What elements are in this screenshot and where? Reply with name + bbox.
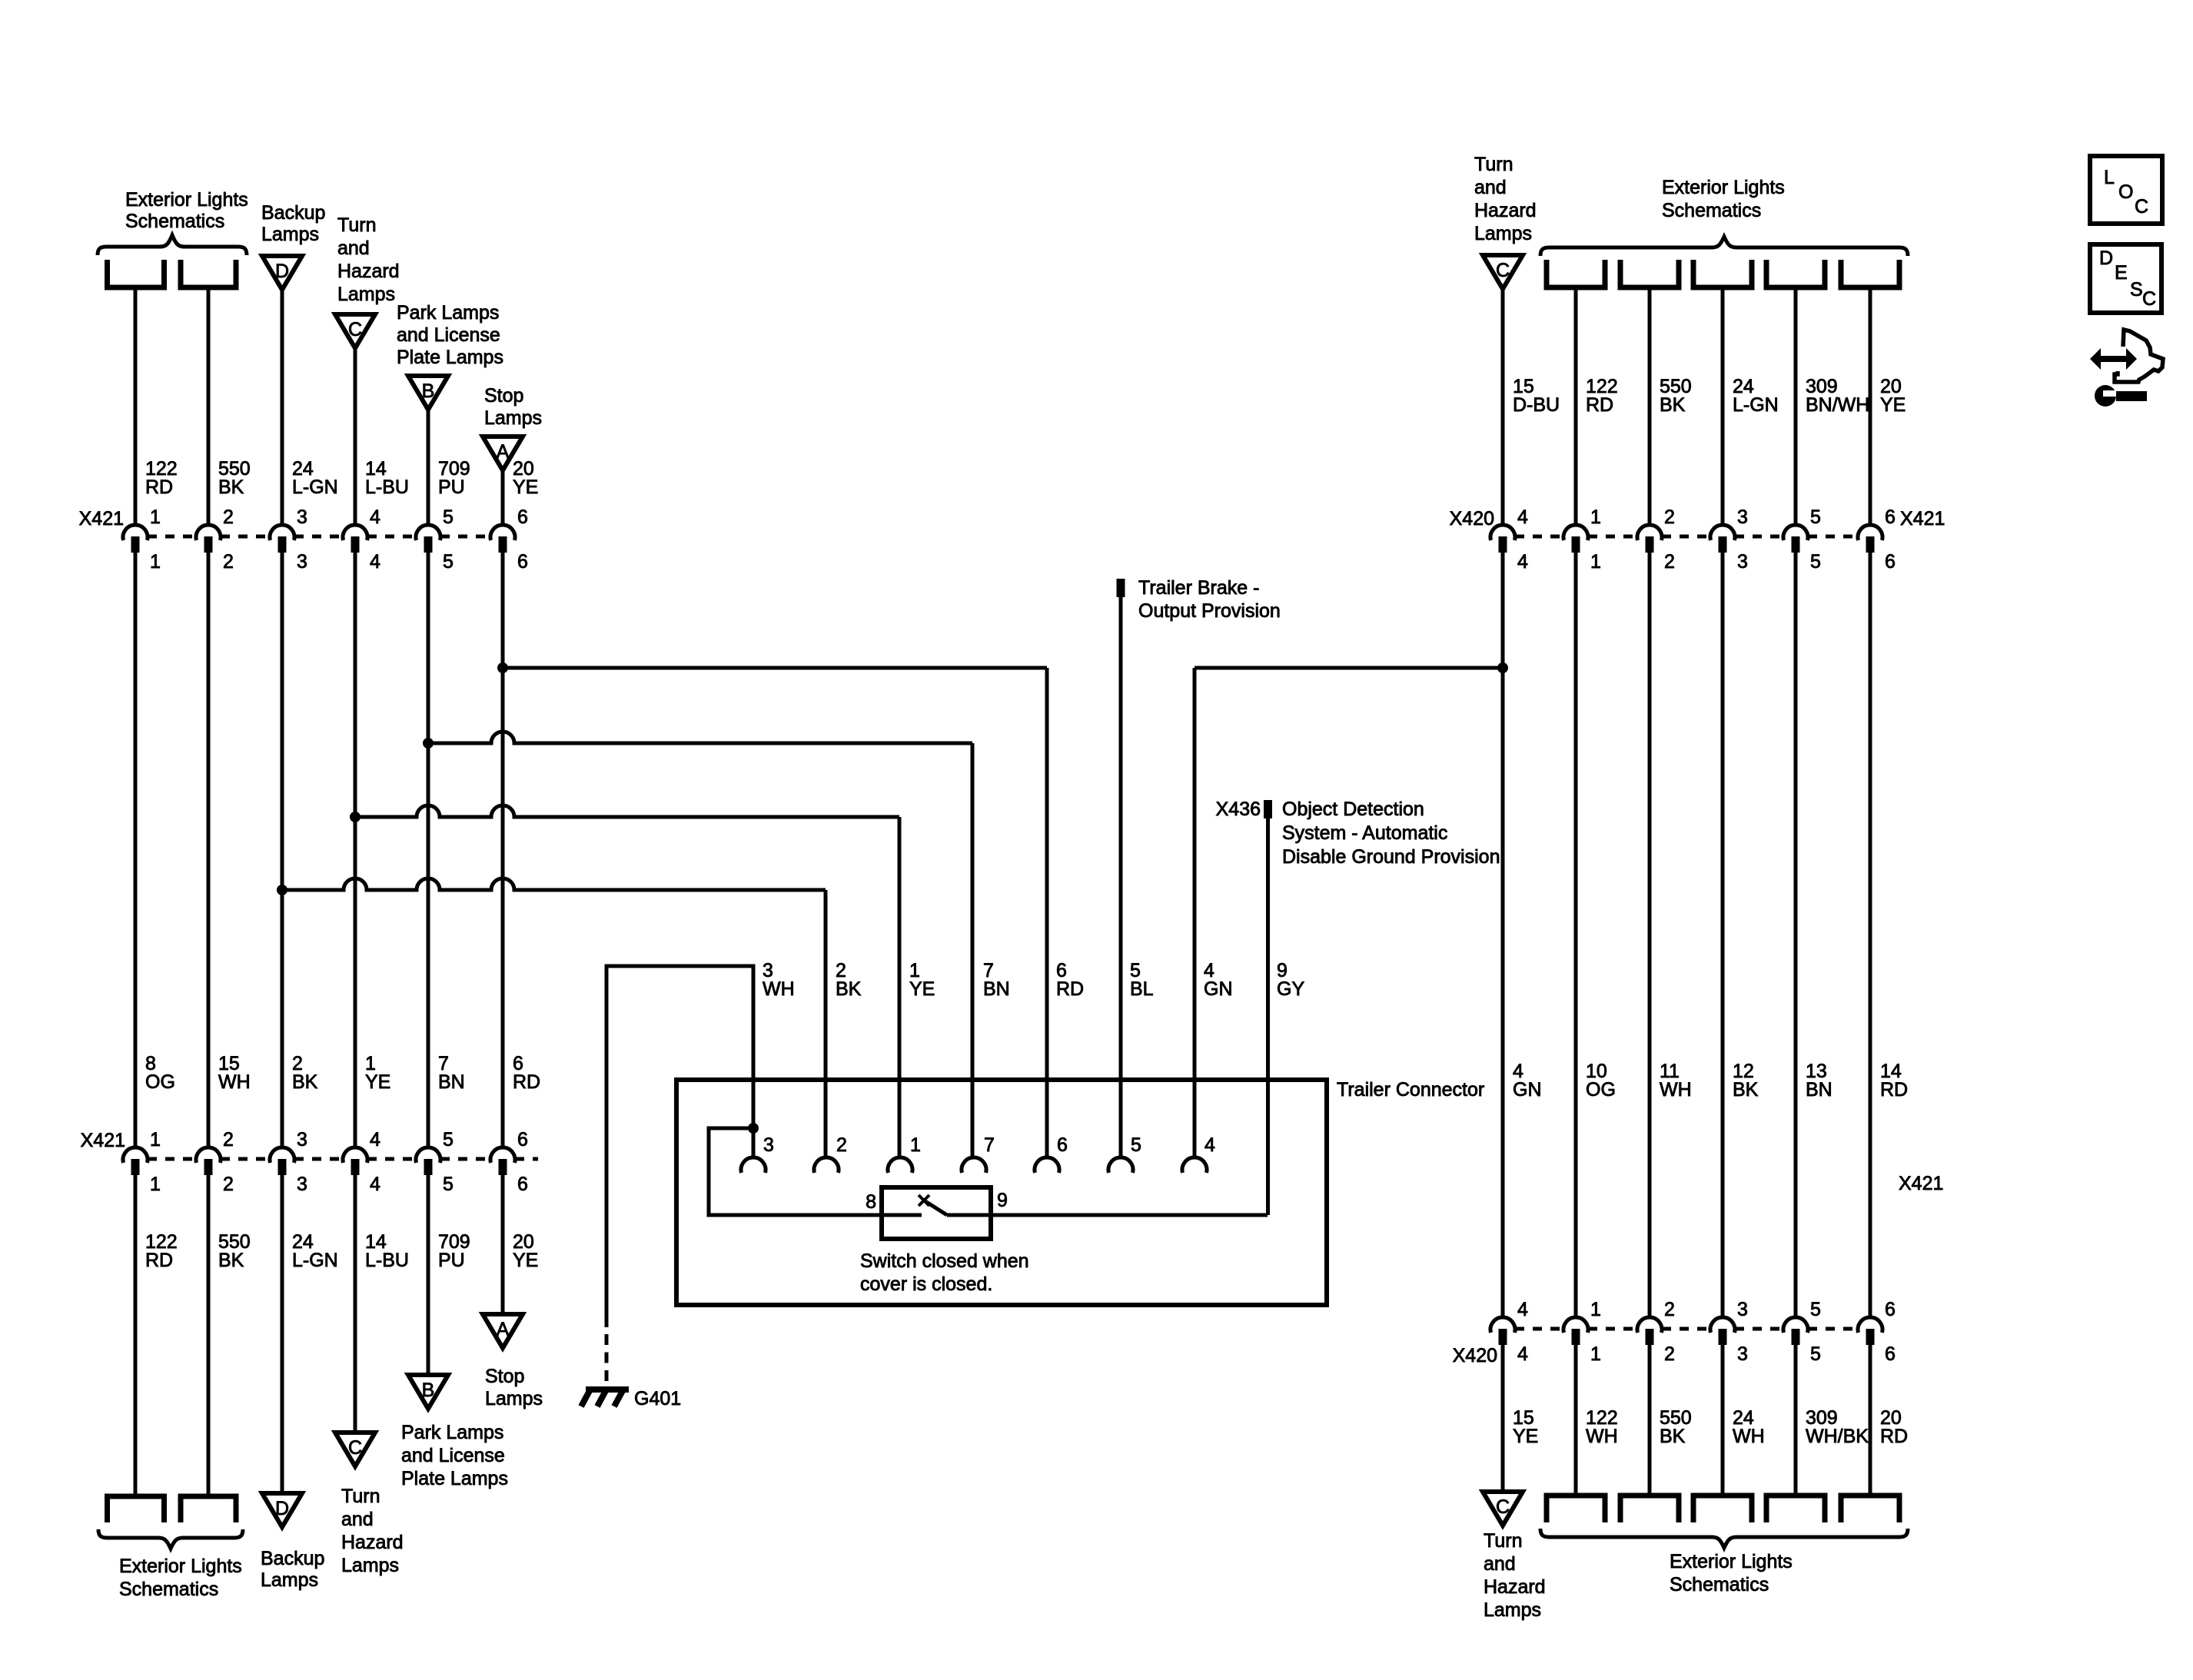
brace: exterior lights schematics bottom left [98,1529,243,1549]
svg-text:4: 4 [1517,1299,1528,1320]
svg-text:BK: BK [836,978,862,1000]
trailer connector terminal 4 [1182,1157,1207,1173]
svg-text:2: 2 [1664,1299,1675,1320]
svg-text:Turn: Turn [341,1486,380,1507]
svg-text:Lamps: Lamps [484,407,542,429]
wire right col 4 vertical bottom [1721,1345,1725,1495]
svg-text:Stop: Stop [484,385,523,407]
svg-text:L-BU: L-BU [365,476,409,498]
connector box (exterior lights, bottom right 3) [1693,1496,1752,1522]
lamp symbol C (Turn and Hazard Lamps) [335,314,375,348]
svg-text:BN: BN [1806,1079,1832,1101]
brace: exterior lights schematics top left [98,235,247,255]
svg-text:Hazard: Hazard [337,261,400,282]
wire right col 6 vertical bottom [1869,1345,1872,1495]
svg-text:X436: X436 [1216,798,1261,820]
svg-text:4: 4 [370,506,380,528]
svg-text:Turn: Turn [337,214,376,236]
svg-text:Lamps: Lamps [337,284,395,305]
svg-text:2: 2 [1664,551,1675,573]
svg-text:Object Detection: Object Detection [1282,798,1424,820]
svg-text:OG: OG [145,1071,175,1093]
svg-text:6: 6 [1885,1343,1896,1365]
svg-text:BK: BK [1733,1079,1759,1101]
svg-text:4: 4 [1517,551,1528,573]
wire: riser to trailer connector terminal 6 [1045,668,1049,1157]
wire right col 3 vertical mid [1648,553,1652,1317]
svg-text:X420: X420 [1450,508,1494,530]
svg-text:5: 5 [1810,506,1821,528]
svg-text:Trailer Connector: Trailer Connector [1337,1079,1484,1101]
svg-text:1: 1 [1590,1299,1601,1320]
svg-text:Disable Ground Provision: Disable Ground Provision [1282,846,1500,868]
lamp symbol D (Backup Lamps) [262,256,302,290]
svg-text:2: 2 [836,1134,847,1156]
svg-text:3: 3 [297,1174,307,1195]
wire: box1 to X421 pin 1 [134,287,138,526]
svg-text:C: C [348,1437,362,1459]
node: junction terminal 3 to cover switch [748,1123,759,1134]
svg-text:PU: PU [438,1250,465,1271]
connector box (exterior lights, top right 4) [1766,260,1825,287]
icon: DESC box [2090,244,2161,313]
svg-text:3: 3 [297,551,307,573]
svg-text:4: 4 [1517,1343,1528,1365]
connector box (exterior lights, top left 1) [108,260,164,287]
svg-text:1: 1 [910,1134,921,1156]
svg-text:D-BU: D-BU [1513,394,1560,416]
svg-text:Exterior Lights: Exterior Lights [125,189,248,211]
svg-text:Output Provision: Output Provision [1138,600,1281,622]
wire 3 (24 L-GN / 2 BK) vertical left [281,553,284,1147]
wire 2 (550 BK / 15 WH) vertical left [207,553,211,1147]
wire: horizontal run trailer pin 4 to right wire 4 [1195,666,1504,670]
svg-text:RD: RD [145,476,173,498]
connector X421 upper-left dashed mating line [148,535,196,539]
wire: triangle C to X421 pin 4 [354,348,357,526]
svg-text:5: 5 [443,506,454,528]
connector box (exterior lights, top right 5) [1841,260,1899,287]
svg-text:YE: YE [513,476,538,498]
svg-text:WH: WH [218,1071,251,1093]
svg-text:RD: RD [1586,394,1613,416]
trailer connector terminal 6 [1035,1157,1059,1173]
svg-text:WH: WH [1733,1426,1765,1447]
svg-text:C: C [1496,1496,1510,1518]
wire right col 1 vertical bottom [1501,1345,1505,1492]
svg-text:6: 6 [1885,1299,1896,1320]
wire: riser to trailer connector terminal 2 [824,890,828,1157]
svg-text:X421: X421 [1900,508,1945,530]
wire: riser to trailer connector terminal 4 [1193,668,1197,1157]
svg-text:GN: GN [1513,1079,1542,1101]
connector box (exterior lights, top right 3) [1693,260,1752,287]
wire 2 lower-left vertical [207,1175,211,1496]
svg-text:3: 3 [1737,506,1748,528]
wire right col 6 vertical mid [1869,553,1872,1317]
wire: box2 to X421 pin 2 [207,287,211,526]
trailer connector terminal 1 [888,1157,912,1173]
svg-text:6: 6 [1057,1134,1068,1156]
wire right col 2 vertical bottom [1574,1345,1578,1495]
wire: riser to trailer connector terminal 7 [971,743,975,1157]
svg-text:RD: RD [145,1250,173,1271]
svg-text:5: 5 [1810,1299,1821,1320]
wire 5 (709 PU / 7 BN) vertical left [427,553,430,1147]
svg-text:3: 3 [1737,551,1748,573]
connector box (exterior lights, bottom left 2) [181,1496,236,1522]
svg-text:2: 2 [1664,506,1675,528]
connector box (exterior lights, bottom right 4) [1766,1496,1825,1522]
svg-text:Lamps: Lamps [261,1569,318,1591]
wire: triangle C to X420 pin 4 (right) [1501,289,1505,526]
svg-text:Exterior Lights: Exterior Lights [119,1555,242,1577]
wire 4 lower-left vertical [354,1175,357,1433]
svg-text:4: 4 [1517,506,1528,528]
connector X420 lower-right dashed mating line [1515,1327,1563,1331]
svg-text:L-GN: L-GN [292,476,338,498]
wire: riser to trailer connector terminal 1 [898,817,902,1157]
svg-text:BN/WH: BN/WH [1806,394,1869,416]
svg-text:6: 6 [1885,506,1896,528]
wire: triangle D to X421 pin 3 [281,290,284,526]
svg-text:and License: and License [397,324,500,346]
svg-text:C: C [2142,288,2156,310]
connector: Trailer Brake output provision pin [1117,579,1125,597]
node: junction right wire 4 [1497,662,1508,673]
svg-text:Trailer Brake -: Trailer Brake - [1138,577,1259,599]
svg-text:RD: RD [513,1071,540,1093]
svg-text:A: A [497,1319,510,1340]
connector box (exterior lights, bottom right 2) [1620,1496,1679,1522]
svg-text:D: D [2099,247,2113,269]
svg-text:Park Lamps: Park Lamps [397,302,499,324]
trailer connector terminal 5 [1108,1157,1133,1173]
svg-text:Exterior Lights: Exterior Lights [1670,1551,1793,1572]
wire: trailer brake to trailer connector terminal 5 [1119,597,1123,1157]
svg-text:Schematics: Schematics [1670,1574,1769,1595]
svg-text:1: 1 [1590,551,1601,573]
svg-text:L-GN: L-GN [292,1250,338,1271]
svg-text:WH: WH [763,978,795,1000]
lamp symbol B (Park Lamps, bottom) [408,1375,448,1409]
svg-text:YE: YE [365,1071,390,1093]
wire: triangle A to X421 pin 6 [501,470,505,526]
svg-text:Hazard: Hazard [341,1532,404,1553]
svg-text:1: 1 [1590,506,1601,528]
svg-text:6: 6 [1885,551,1896,573]
wire: X436 to switch terminal 9 [1266,818,1270,1215]
svg-text:1: 1 [150,551,161,573]
switch blade and contacts [882,1214,922,1217]
svg-text:WH: WH [1586,1426,1618,1447]
svg-text:Backup: Backup [261,202,325,224]
trailer connector terminal 7 [962,1157,986,1173]
svg-text:OG: OG [1586,1079,1616,1101]
svg-text:and: and [337,237,370,259]
svg-text:Schematics: Schematics [1662,200,1761,221]
wire right col 1 vertical mid [1501,553,1505,1317]
svg-text:3: 3 [763,1134,774,1156]
wire: horizontal run wire3 to trailer connector pin 2 (hops wires 4,5,6) [282,878,826,890]
svg-text:RD: RD [1880,1426,1908,1447]
svg-text:5: 5 [443,1174,454,1195]
icon: double arrow [2090,348,2137,370]
wire right col 2 vertical mid [1574,553,1578,1317]
node: junction wire 6 to trailer pin 6 run [497,662,508,673]
svg-text:Plate Lamps: Plate Lamps [401,1468,508,1489]
svg-text:5: 5 [1810,551,1821,573]
wire/ground net: G401 leg and terminal 3 bracket [606,966,753,1327]
icon: LOC box [2090,156,2162,224]
svg-text:7: 7 [984,1134,995,1156]
trailer connector terminal 3 [741,1157,766,1173]
svg-text:3: 3 [297,506,307,528]
connector box (exterior lights, top right 1) [1547,260,1605,287]
wire right col 5 vertical mid [1794,553,1798,1317]
ground G401 symbol [586,1386,629,1393]
wire 1 (122 RD / 8 OG) vertical left [134,553,138,1147]
wire right col 4 vertical mid [1721,553,1725,1317]
svg-text:4: 4 [370,1174,380,1195]
svg-text:YE: YE [1880,394,1906,416]
svg-text:9: 9 [997,1190,1008,1211]
svg-text:O: O [2118,181,2133,203]
svg-text:Switch closed when: Switch closed when [860,1250,1029,1272]
svg-text:D: D [275,261,289,282]
svg-text:1: 1 [150,506,161,528]
svg-text:WH: WH [1660,1079,1692,1101]
svg-text:Turn: Turn [1474,154,1513,175]
svg-text:5: 5 [1810,1343,1821,1365]
svg-text:GY: GY [1277,978,1304,1000]
connector X436 pin (object detection ground provision) [1264,800,1272,818]
svg-text:Stop: Stop [485,1366,524,1387]
svg-text:L: L [2104,167,2115,188]
svg-text:cover is closed.: cover is closed. [860,1273,992,1295]
svg-text:X421: X421 [81,1130,125,1151]
svg-text:and: and [1484,1553,1516,1575]
svg-text:Exterior Lights: Exterior Lights [1662,177,1785,198]
wire right col 5 vertical bottom [1794,1345,1798,1495]
svg-text:Lamps: Lamps [485,1388,543,1409]
svg-text:WH/BK: WH/BK [1806,1426,1869,1447]
svg-text:C: C [1496,260,1510,281]
svg-text:4: 4 [1204,1134,1215,1156]
switch: cover switch box [882,1187,991,1239]
svg-text:BK: BK [1660,1426,1686,1447]
trailer connector outline box [676,1080,1327,1305]
svg-text:2: 2 [1664,1343,1675,1365]
lamp symbol B (Park Lamps and License Plate Lamps) [408,376,448,410]
connector box (exterior lights, top right 2) [1620,260,1679,287]
svg-text:B: B [422,1380,435,1401]
node: junction wire 3 [277,885,287,895]
svg-text:6: 6 [517,506,528,528]
svg-text:YE: YE [909,978,935,1000]
svg-text:1: 1 [150,1174,161,1195]
svg-text:5: 5 [443,551,454,573]
svg-text:Turn: Turn [1484,1530,1522,1552]
svg-text:and: and [1474,177,1507,198]
wire: box to X420 (right col 2) [1574,287,1578,526]
svg-text:E: E [2115,262,2128,284]
wire: switch pin 8 path [709,1128,882,1215]
svg-text:C: C [2135,196,2148,217]
svg-text:BK: BK [292,1071,318,1093]
svg-text:4: 4 [370,1129,380,1150]
svg-text:3: 3 [1737,1343,1748,1365]
wire: switch pin 9 to X436 riser [947,1214,991,1217]
svg-text:GN: GN [1204,978,1233,1000]
svg-text:Lamps: Lamps [261,224,319,245]
wire: horizontal run wire4 to trailer connector pin 1 (hops wires 5,6) [355,805,899,817]
svg-text:B: B [422,380,435,402]
wire: box to X420 (right col 3) [1648,287,1652,526]
svg-text:4: 4 [370,551,380,573]
svg-text:BK: BK [1660,394,1686,416]
node: junction wire 4 [350,812,361,822]
svg-text:Schematics: Schematics [119,1579,218,1600]
wire right col 3 vertical bottom [1648,1345,1652,1495]
wire: horizontal run wire5 to trailer connector pin 7 (hops wire 6) [428,732,972,743]
svg-text:Schematics: Schematics [125,211,224,232]
svg-text:BN: BN [983,978,1010,1000]
svg-text:PU: PU [438,476,465,498]
svg-text:D: D [275,1498,289,1519]
wire: horizontal run wire6 to trailer connector pin 6 [503,666,1047,670]
svg-text:S: S [2130,279,2143,300]
svg-text:YE: YE [1513,1426,1538,1447]
wire: dashed ground lead [605,1334,609,1383]
connector box (exterior lights, top left 2) [181,260,236,287]
svg-text:Backup: Backup [261,1548,324,1569]
svg-text:A: A [497,441,510,463]
lamp symbol D (Backup Lamps, bottom) [262,1493,302,1527]
lamp symbol C (Turn and Hazard Lamps, bottom right) [1483,1492,1523,1526]
svg-text:RD: RD [1056,978,1084,1000]
svg-text:X421: X421 [79,508,124,530]
node: junction wire 5 [423,738,434,749]
svg-text:2: 2 [223,1129,234,1150]
svg-text:and License: and License [401,1445,505,1466]
svg-text:3: 3 [1737,1299,1748,1320]
svg-text:6: 6 [517,551,528,573]
svg-text:L-BU: L-BU [365,1250,409,1271]
svg-text:BN: BN [438,1071,465,1093]
wire: box to X420 (right col 4) [1721,287,1725,526]
icon: vehicle outline [2115,330,2163,382]
svg-text:8: 8 [866,1191,876,1213]
svg-text:X421: X421 [1899,1173,1943,1194]
wire 5 lower-left vertical [427,1175,430,1375]
brace: exterior lights schematics top right [1540,237,1908,256]
svg-text:6: 6 [517,1174,528,1195]
svg-text:5: 5 [443,1129,454,1150]
svg-text:3: 3 [297,1129,307,1150]
svg-text:Lamps: Lamps [1474,223,1532,244]
svg-text:C: C [348,319,362,340]
svg-text:G401: G401 [634,1388,681,1409]
icon: wrench [2095,385,2116,407]
lamp symbol A (Stop Lamps) [483,437,523,470]
svg-text:Park Lamps: Park Lamps [401,1422,503,1443]
svg-text:BK: BK [218,1250,244,1271]
connector box (exterior lights, bottom right 5) [1841,1496,1899,1522]
connector X420 upper-right dashed mating line [1515,535,1563,539]
svg-text:Lamps: Lamps [1484,1599,1541,1621]
wire 6 lower-left vertical [501,1175,505,1314]
svg-text:2: 2 [223,1174,234,1195]
svg-text:2: 2 [223,506,234,528]
trailer connector terminal 2 [814,1157,839,1173]
svg-text:1: 1 [1590,1343,1601,1365]
svg-text:X420: X420 [1453,1345,1497,1366]
svg-text:YE: YE [513,1250,538,1271]
svg-text:BL: BL [1130,978,1154,1000]
wire 6 (20 YE / 6 RD) vertical left [501,553,505,1147]
wire: box to X420 (right col 6) [1869,287,1872,526]
wire 4 (14 L-BU / 1 YE) vertical left [354,553,357,1147]
svg-text:Plate Lamps: Plate Lamps [397,347,503,368]
lamp symbol C (Turn and Hazard Lamps, bottom) [335,1433,375,1466]
lamp symbol A (Stop Lamps, bottom) [483,1314,523,1348]
svg-text:BK: BK [218,476,244,498]
svg-text:RD: RD [1880,1079,1908,1101]
wire 3 lower-left vertical [281,1175,284,1496]
wire 1 lower-left vertical [134,1175,138,1496]
wire: box to X420 (right col 5) [1794,287,1798,526]
connector X421 lower-left dashed mating line [148,1157,196,1161]
svg-text:2: 2 [223,551,234,573]
svg-text:6: 6 [517,1129,528,1150]
wire: triangle B to X421 pin 5 [427,410,430,526]
svg-text:Hazard: Hazard [1484,1576,1546,1598]
connector box (exterior lights, bottom right 1) [1547,1496,1605,1522]
svg-text:L-GN: L-GN [1733,394,1779,416]
svg-text:5: 5 [1131,1134,1141,1156]
svg-text:Lamps: Lamps [341,1555,399,1576]
connector box (exterior lights, bottom left 1) [108,1496,164,1522]
svg-text:System - Automatic: System - Automatic [1282,822,1447,844]
svg-text:Hazard: Hazard [1474,200,1537,221]
brace: exterior lights schematics bottom right [1540,1529,1908,1548]
svg-text:and: and [341,1509,374,1530]
lamp symbol C (Turn and Hazard Lamps, top right) [1483,255,1523,289]
svg-text:1: 1 [150,1129,161,1150]
